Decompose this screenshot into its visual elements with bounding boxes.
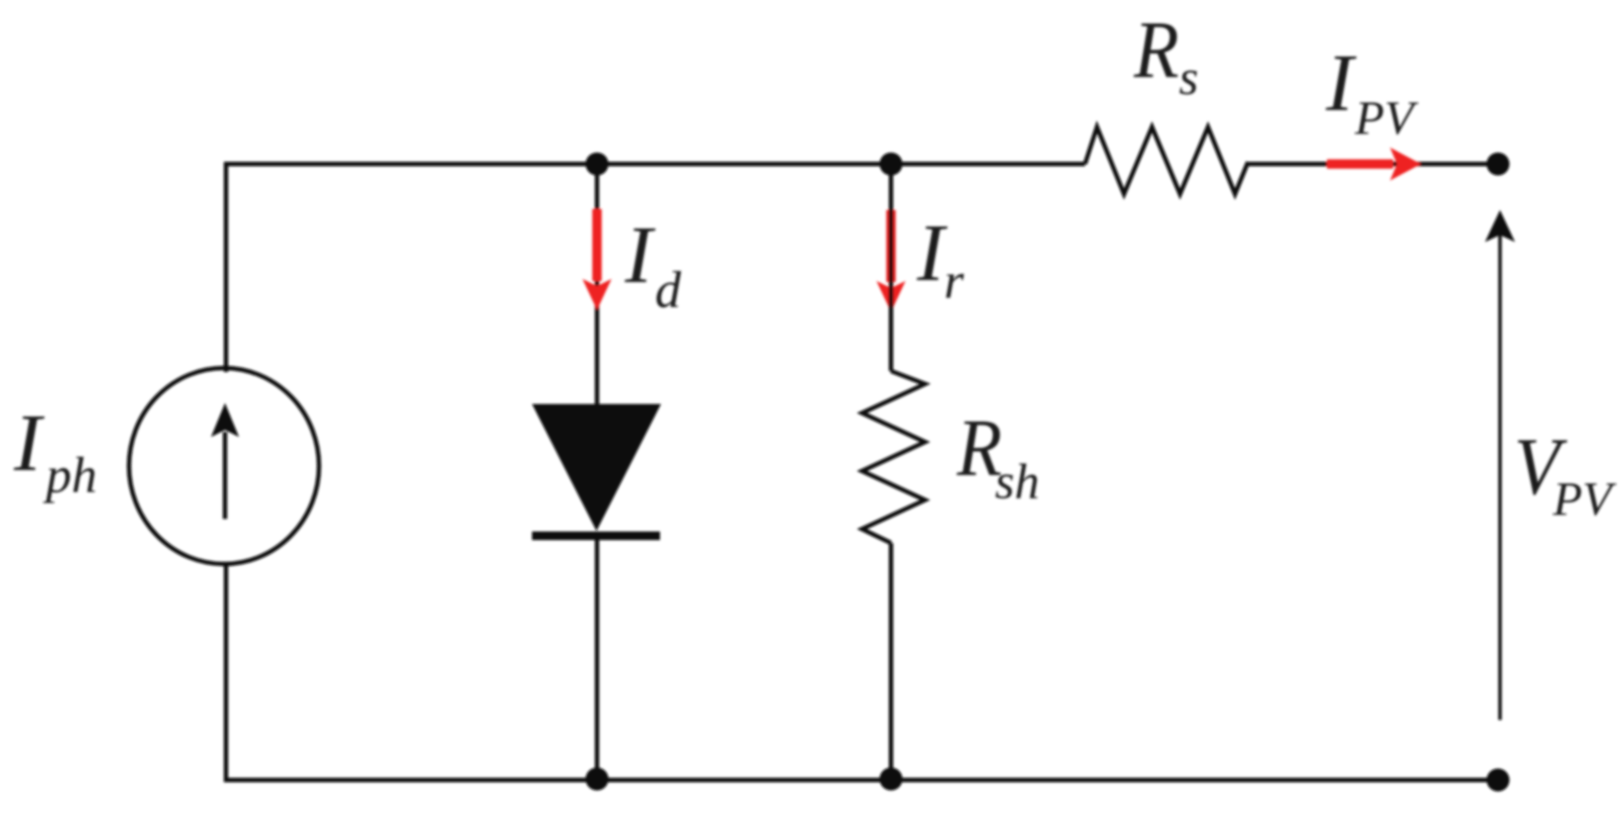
node: bottom-right terminal dot xyxy=(1487,769,1510,792)
svg-text:I: I xyxy=(624,209,656,300)
wire: top rail, node A to node B xyxy=(597,162,891,166)
node: bottom junction dot under diode xyxy=(586,768,609,791)
svg-text:s: s xyxy=(1179,49,1198,105)
svg-text:PV: PV xyxy=(1552,473,1616,526)
label I_ph xyxy=(13,397,97,504)
node A junction dot xyxy=(586,153,609,176)
wire: node A down to diode anode xyxy=(595,164,599,407)
wire: node B to Rs left lead xyxy=(891,162,1085,166)
node B junction dot xyxy=(880,153,903,176)
node: output terminal top dot xyxy=(1487,153,1510,176)
voltage arrow V_PV (annotation) xyxy=(1485,210,1515,720)
label I_r xyxy=(916,207,964,310)
svg-text:r: r xyxy=(944,254,964,310)
current arrow I_PV (red) xyxy=(1327,148,1421,181)
wire: Rsh bottom lead to bottom rail xyxy=(889,543,893,782)
wire: source top lead to top-left corner xyxy=(224,162,228,372)
label R_sh xyxy=(956,402,1039,509)
diode D1 cathode bar xyxy=(532,532,660,541)
label I_PV xyxy=(1325,37,1418,145)
wire: source bottom lead to bottom-left corner xyxy=(224,562,228,782)
diode D1 triangle xyxy=(532,404,661,531)
resistor R_s zigzag xyxy=(1085,127,1248,194)
wire: node B down to Rsh top lead xyxy=(889,164,893,371)
current arrow I_r (red) xyxy=(877,210,906,312)
svg-text:ph: ph xyxy=(43,448,97,504)
wire: Rs right lead to output terminal xyxy=(1248,162,1498,166)
label R_s xyxy=(1133,4,1198,105)
svg-text:I: I xyxy=(13,397,45,488)
wire: top rail, corner to node A xyxy=(224,162,597,166)
resistor R_sh zigzag xyxy=(862,371,925,543)
current source I_ph (circle with up arrow) xyxy=(129,368,319,564)
label V_PV xyxy=(1514,421,1616,526)
svg-text:sh: sh xyxy=(995,453,1039,509)
svg-text:d: d xyxy=(655,262,682,319)
current arrow I_d (red) xyxy=(583,209,612,310)
label I_d xyxy=(624,209,682,319)
wire: bottom rail xyxy=(224,778,1498,782)
node: bottom junction dot under Rsh xyxy=(880,768,903,791)
svg-text:PV: PV xyxy=(1354,92,1418,145)
svg-text:R: R xyxy=(1133,4,1179,95)
wire: diode cathode to bottom rail xyxy=(595,540,599,782)
svg-text:I: I xyxy=(1325,37,1357,128)
